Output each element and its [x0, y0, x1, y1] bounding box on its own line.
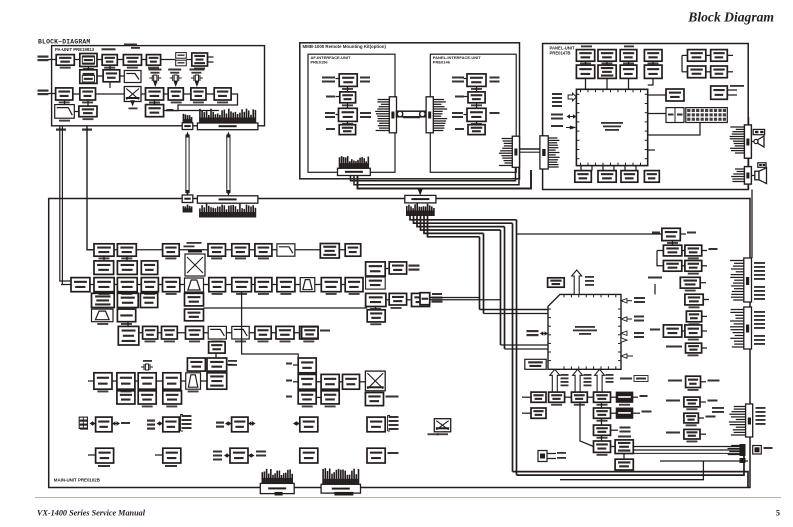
row I wires [125, 389, 127, 391]
eeprom L2 [571, 392, 587, 402]
external speaker [751, 175, 754, 177]
tone out label [386, 396, 399, 398]
right edge connector CN5 [746, 404, 753, 437]
PA ramp generator [124, 71, 141, 83]
left io M0 [531, 408, 546, 418]
row B block B1 [94, 261, 114, 275]
panel-interface mic amp [467, 108, 486, 121]
row J arrow 3b [251, 423, 253, 425]
svg-text:PA-UNIT PRE19813: PA-UNIT PRE19813 [55, 47, 95, 52]
ext speaker connector CN6 [740, 444, 746, 456]
CN6 comb [731, 445, 739, 447]
row H block H2 [117, 373, 135, 389]
PA row1 small pair blocks [176, 53, 187, 59]
row C block C12 [321, 278, 341, 292]
PA balanced mixer [124, 87, 141, 102]
PA squelch filter [55, 105, 75, 119]
panel dimmer [711, 66, 728, 78]
afsk block [298, 358, 316, 373]
noise rect [187, 358, 205, 371]
shift register N1 [594, 425, 611, 435]
footer rule [35, 497, 781, 499]
rc block 7b [685, 325, 702, 337]
wire MIC in [49, 93, 56, 95]
row C wire [61, 284, 360, 286]
panel-interface right labels [490, 77, 500, 79]
row A end block [345, 244, 361, 256]
row C block C4 [141, 278, 158, 292]
panel clock osc [644, 65, 662, 78]
cpu bottom arrow 3 [595, 369, 605, 392]
svg-text:VX-1400 Series Service Manual: VX-1400 Series Service Manual [37, 509, 146, 518]
main connector J1003 [405, 195, 436, 203]
pll block G2 [389, 293, 406, 305]
panel top labels [581, 46, 592, 48]
rc block 7a [663, 325, 681, 337]
panel keypad matrix [686, 108, 728, 123]
speaker terminal bar 2 [758, 163, 766, 168]
crystal X1 arrow [153, 81, 157, 87]
reg K1 label [98, 465, 110, 467]
row D block D4 [185, 293, 204, 306]
row H block H4 [163, 373, 181, 389]
svg-text:Block Diagram: Block Diagram [687, 10, 774, 25]
row C block C8 [232, 278, 252, 292]
PANEL-UNIT box [543, 44, 749, 190]
cpu right pins [621, 299, 627, 304]
CN3 right labels [754, 262, 765, 264]
AF connector pin comb [378, 99, 390, 101]
PA row1 TX mixer [146, 55, 160, 66]
row F block F2 [162, 326, 178, 339]
pll label [432, 297, 443, 299]
panel-interface wires [464, 78, 468, 80]
cpu reset block [548, 278, 565, 287]
panel key backlight [575, 171, 592, 183]
row C block C5 [163, 278, 180, 292]
row F wires [127, 322, 129, 327]
pll block G3 [412, 293, 430, 306]
panel volume wires [727, 89, 737, 91]
cpu xtal block [525, 359, 546, 369]
panel right top wires [682, 54, 688, 56]
crystal Y2 [143, 364, 145, 370]
2pin connector bottom left of cpu zone [538, 451, 547, 462]
row I block I3 [163, 391, 182, 404]
main J1001 comb [182, 206, 184, 212]
eeprom L1 [549, 392, 565, 402]
AF unit connector strip [389, 97, 396, 133]
wire CN2 to panel box bottom [748, 184, 750, 189]
PA 2nd mixer [191, 88, 206, 100]
AF bottom connector comb [339, 157, 341, 168]
panel memory IC [688, 50, 706, 62]
PA reference crystal X1 [151, 75, 153, 81]
reg block K4 [300, 448, 318, 463]
row D long wire [204, 307, 368, 309]
MIC input label [38, 90, 49, 92]
tone enc 3 [343, 374, 360, 389]
MMB cable bundle to main unit [351, 167, 516, 181]
PA connector J1 [182, 123, 193, 130]
reg block K3 labels [213, 451, 222, 453]
MMB to panel cable [520, 148, 540, 150]
PA crystal X2 [172, 75, 174, 81]
rc vertical wire [672, 241, 674, 246]
af pa label [618, 436, 631, 438]
panel-interface right comb [502, 138, 513, 140]
speaker return loop wires [660, 460, 748, 462]
misc under-block labels [99, 258, 110, 260]
panel CPU bottom pins [580, 166, 582, 171]
row H filter [186, 373, 201, 389]
rc block 1 [662, 228, 680, 240]
PA row1 drive amp [102, 55, 117, 66]
panel volume pot [711, 86, 728, 99]
panel regulator 2 [598, 50, 616, 62]
row K arrow 3b [250, 455, 253, 457]
remote extension cable [397, 111, 427, 117]
row I block I2 [138, 391, 156, 404]
af mute block [615, 459, 633, 470]
panel speaker conn comb [730, 126, 744, 128]
row K arrow 3 [226, 455, 228, 457]
speaker terminal bar 1 [753, 129, 764, 134]
PA row1 modulator [192, 53, 208, 66]
row J arrow 1 [92, 423, 94, 425]
row C block C1 [71, 278, 90, 292]
io expander 2 labels [182, 415, 192, 417]
reg block K5 [367, 448, 385, 463]
pll block G1 [366, 293, 386, 306]
AF bottom connector [338, 168, 371, 175]
PA supply line left inside main [60, 199, 71, 282]
panel CPU left labels [552, 93, 562, 95]
tone out [365, 393, 383, 406]
panel beep amp [644, 171, 659, 183]
PA row1 RF power module [80, 54, 97, 67]
rc block 6 [686, 311, 701, 322]
CN4 right labels [754, 311, 765, 313]
ceramic filter C6 [185, 278, 204, 292]
tcxo block [366, 262, 386, 276]
AF unit wires [336, 78, 340, 80]
PA mixer arrow down [130, 100, 135, 106]
J1004 label below [275, 492, 283, 496]
svg-text:5: 5 [776, 509, 780, 518]
rc block 2a [663, 245, 681, 256]
row J io 2 [147, 420, 155, 422]
PA crystal X3 [193, 75, 195, 81]
row C block C7 [209, 278, 226, 292]
row H block H1 [94, 373, 112, 389]
row C block C9 [255, 278, 272, 292]
panel left connector comb [548, 137, 557, 139]
row D block D3 [140, 293, 157, 307]
ceramic filter C11 [300, 278, 315, 292]
row J arrow 1b [115, 423, 117, 425]
row I block I1 [117, 391, 135, 404]
rc wires 1 [680, 233, 686, 235]
panel squelch pot [666, 89, 684, 101]
AF-INTERFACE-UNIT box [308, 54, 395, 172]
right cluster label [652, 232, 660, 234]
bfo block [389, 262, 406, 274]
tone enc 1 [298, 374, 316, 389]
cpu top right pin [654, 284, 656, 294]
PA supply line 2 inside main [87, 199, 94, 250]
AF unit side labels [322, 77, 335, 79]
vertical bus lines [479, 237, 481, 310]
row J io 3 [216, 422, 224, 424]
rx front block A4 [208, 244, 226, 256]
rx front block A5 [232, 244, 249, 256]
PA PLL block [103, 70, 120, 82]
row A wire [87, 249, 361, 251]
driver M2 dark [616, 408, 633, 418]
row B block B2 [117, 261, 137, 275]
row H end block [207, 373, 227, 389]
panel-interface audio amp [467, 74, 486, 87]
rc af amp 2 [684, 397, 700, 407]
PANEL-INTERFACE-UNIT box [430, 54, 516, 172]
right edge connector CN3 [744, 258, 752, 302]
panel to main bus line [751, 190, 753, 259]
tone cluster wires [316, 381, 321, 383]
rc block 4 [680, 277, 700, 288]
cable arrow into main connector [419, 189, 421, 193]
PA-MAIN ribbon cable 1 [185, 135, 187, 194]
io expander 4 [300, 417, 318, 432]
row F block F8 [300, 326, 318, 339]
PA supply line 2 [87, 126, 94, 250]
row E block [117, 309, 135, 322]
panel CPU bus arrow [570, 116, 574, 118]
io expander 2 [163, 417, 179, 432]
wire CN1 to CN2 [748, 158, 750, 166]
cpu bus arrow up [572, 270, 582, 294]
af switch O1 [594, 441, 611, 452]
PA limiter [80, 88, 96, 100]
row J arrow 3 [227, 423, 230, 425]
row D block D1 [92, 293, 115, 307]
PA supply line left [60, 126, 71, 281]
panel CPU left arrow [568, 93, 576, 101]
PA IF amp [146, 88, 164, 100]
row E filter [92, 309, 114, 322]
noise amp [209, 342, 226, 354]
PA row1 buffer amp [123, 55, 141, 66]
main connector J1002 [197, 196, 258, 203]
rx front block A1 [94, 244, 114, 256]
svg-text:BLOCK−DIAGRAM: BLOCK−DIAGRAM [38, 39, 90, 46]
row B wire [103, 256, 105, 261]
tcxo sub block [366, 277, 386, 289]
panel key scanner [688, 66, 706, 78]
panel CPU right wires [648, 94, 666, 96]
mid-left io block [420, 293, 430, 305]
left io L0 [531, 392, 546, 402]
ANT input label [38, 56, 49, 58]
cpu bottom extra label [620, 378, 632, 380]
panel handset conn comb [735, 168, 744, 170]
vco block H1 [367, 310, 385, 322]
row H block H3 [138, 373, 156, 389]
reg K5 label [388, 452, 399, 454]
panel encoder [621, 171, 638, 183]
bus stair from J1003 [410, 214, 517, 220]
main bottom connector J1005 [321, 484, 360, 493]
panel CPU left arrow 3 [570, 126, 577, 130]
AF unit mic amp [339, 108, 358, 121]
row F tall block [118, 326, 139, 345]
reg block K1 [96, 448, 114, 463]
panel LCD driver [598, 65, 616, 78]
wire ANT to LPF [49, 59, 57, 61]
row H wire [88, 380, 207, 382]
rc af amp 1 [686, 376, 701, 387]
cpu left bus [543, 333, 545, 335]
PA J2 pin comb [199, 109, 201, 123]
J1005 label below [334, 492, 353, 496]
bfo label [409, 265, 420, 267]
bus into main CPU left [480, 309, 549, 311]
rc block 3b [685, 261, 702, 272]
cpu bottom arrow 2 [573, 369, 583, 392]
row F block F5 [232, 326, 249, 339]
CN5 comb [734, 406, 746, 408]
reg block K2 [163, 448, 181, 463]
det label [320, 330, 330, 332]
CN5 right labels [756, 407, 766, 409]
panel backup circuit [620, 50, 637, 62]
PA squelch amp [79, 106, 97, 117]
shift register M1 [594, 408, 611, 418]
row F block F7 [276, 326, 294, 339]
rc block 8 [686, 343, 702, 353]
PA row2 wires [87, 67, 89, 70]
det block left [302, 327, 318, 339]
crystal X3 arrow [195, 81, 199, 87]
PA-UNIT box [52, 46, 265, 126]
panel left connector [540, 136, 548, 169]
PA VCO block [80, 70, 97, 84]
row C block C13 [345, 278, 363, 292]
balanced modulator icon [185, 254, 205, 276]
mid-left io wire [430, 297, 480, 299]
squelch wires [215, 353, 217, 358]
row D wire [103, 292, 105, 294]
svg-text:PRE0147B: PRE0147B [550, 50, 571, 55]
panel handset connector [744, 167, 751, 185]
panel speaker connector 1 [744, 125, 751, 158]
main CPU IC [548, 294, 621, 369]
squelch switch [207, 358, 227, 371]
row C block C10 [277, 278, 295, 292]
PA AF amp [146, 105, 164, 117]
row F block F3 [186, 326, 204, 339]
bus wire to right cluster [517, 233, 662, 235]
af power amp [615, 440, 633, 454]
driver L4 dark [616, 392, 633, 402]
panel-interface right connector strip [512, 136, 519, 167]
tone dec 2 [321, 391, 339, 404]
panel CPU IC [576, 89, 647, 165]
PA row3 wires [73, 93, 80, 95]
row F block F1 [143, 326, 158, 339]
main J1003 comb [406, 206, 408, 216]
rx front block A6 [255, 244, 272, 256]
PA discriminator [214, 88, 231, 100]
svg-text:PRE0146: PRE0146 [433, 60, 451, 65]
battery icon [79, 417, 87, 428]
cpu rows vertical wires [601, 402, 603, 408]
reg K2 label [165, 465, 177, 467]
panel-interface line amp [468, 92, 485, 103]
io expander 3 [232, 417, 248, 432]
row J arrow 4 [295, 423, 298, 425]
main bottom connector J1004 [260, 483, 294, 493]
row D block D2 [117, 293, 138, 307]
rx front block A2 [117, 244, 136, 256]
CN4 comb [731, 309, 744, 311]
svg-text:MMB-1000 Remote Mounting Kit(o: MMB-1000 Remote Mounting Kit(option) [303, 44, 387, 49]
isolation transformer [434, 419, 450, 432]
panel reset circuit [644, 50, 662, 62]
row L wires [565, 396, 572, 398]
CN3 comb [730, 260, 744, 262]
row F block F6 [255, 326, 271, 339]
panel-interface connector strip [426, 97, 433, 133]
CN5 left labels [712, 407, 724, 409]
svg-text:PRE0156: PRE0156 [311, 60, 329, 65]
rc af amp 3 [684, 413, 699, 423]
row F block F4 [208, 326, 226, 339]
PA row1 labels above [102, 48, 116, 50]
bus bottom loop [513, 472, 749, 487]
rc block 5 [685, 294, 703, 305]
af pa out wires [633, 446, 741, 448]
PA row1 wires [74, 59, 80, 61]
PA ceramic filter [168, 88, 183, 100]
row J arrow 2 [159, 423, 161, 425]
reg K3 right labels [256, 451, 266, 453]
io expander 5 labels [389, 416, 399, 418]
panel keypad left cells [666, 108, 684, 123]
main connector J1001 [182, 195, 193, 203]
rc af amp 4 [684, 429, 700, 439]
tone mixer [365, 371, 385, 391]
right edge connector CN4 [744, 307, 752, 349]
row A tall block [320, 244, 339, 259]
PA-MAIN ribbon cable 2 [226, 135, 228, 194]
panel-interface side labels [452, 77, 464, 79]
panel LCD bias [620, 65, 637, 78]
PA mic amp [56, 88, 73, 100]
J1004 comb [261, 472, 263, 483]
svg-text:MAIN-UNIT PRE0102B: MAIN-UNIT PRE0102B [54, 478, 100, 483]
row B block B3 [141, 261, 157, 275]
main J1002 comb [199, 208, 201, 217]
row J io 1 [80, 420, 88, 422]
rx front block A3 [163, 244, 180, 256]
shift register L3 [594, 392, 611, 402]
cpu top labels [585, 276, 594, 278]
panel speaker [751, 141, 754, 143]
MMB-1000 remote mounting kit box [300, 43, 520, 179]
crystal X2 arrow [174, 81, 178, 87]
panel eeprom [711, 50, 728, 62]
